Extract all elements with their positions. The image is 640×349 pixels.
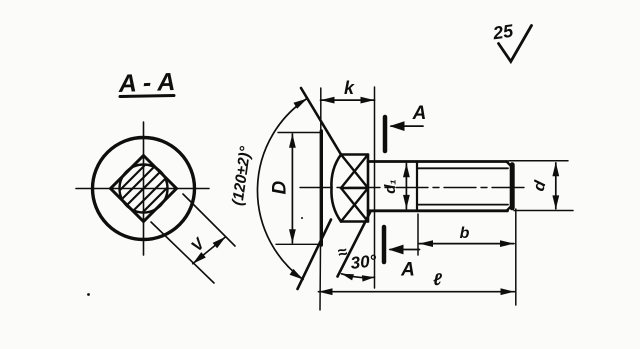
l dimension line xyxy=(319,291,515,293)
cone-to-neck intersection arcs xyxy=(331,155,341,222)
svg-text:A: A xyxy=(412,103,427,124)
vertical centerline (section view) xyxy=(143,122,145,255)
square neck X diagonals bottom xyxy=(341,188,368,222)
bolt end face xyxy=(510,165,515,208)
cutting plane mark top xyxy=(383,117,388,151)
bottom cone edge extended xyxy=(298,220,332,290)
shank circle d1 (section view) xyxy=(120,165,168,213)
thread minor diameter lines xyxy=(417,168,508,204)
b extension line (thread start) xyxy=(417,214,419,255)
svg-text:k: k xyxy=(344,78,355,98)
D dimension line xyxy=(291,134,293,243)
shank bottom line xyxy=(368,209,508,212)
D label xyxy=(270,180,291,194)
surface finish check mark xyxy=(499,26,532,62)
svg-text:25: 25 xyxy=(491,21,516,44)
D dimension extension lines xyxy=(276,133,321,245)
thread start line xyxy=(416,162,418,211)
b label xyxy=(460,225,470,242)
V extension line upper xyxy=(183,194,235,246)
scan speck xyxy=(301,217,303,219)
bolt axis centerline xyxy=(300,187,524,189)
end chamfer top xyxy=(507,162,513,168)
top cone edge extended xyxy=(301,88,341,155)
svg-text:ℓ: ℓ xyxy=(433,270,442,289)
V label xyxy=(189,235,210,255)
svg-text:A: A xyxy=(400,260,415,281)
approx 30 deg label xyxy=(336,243,377,273)
head face line (bolt view) xyxy=(320,88,322,131)
120 degree dimension arc xyxy=(257,99,307,280)
cutting plane label A top xyxy=(412,103,427,124)
b dimension line xyxy=(419,243,514,245)
square neck cross-section (diamond) xyxy=(111,156,177,222)
V extension line lower xyxy=(151,222,214,283)
svg-text:b: b xyxy=(460,225,470,242)
neck end extension line xyxy=(374,87,376,288)
d1 dimension line xyxy=(405,163,407,209)
svg-text:d₁: d₁ xyxy=(382,179,399,193)
cutting plane arrow bottom xyxy=(390,249,420,251)
svg-text:A - A: A - A xyxy=(117,68,175,98)
shank top line xyxy=(368,160,508,163)
section label A-A xyxy=(117,68,175,98)
30 deg angle arrow xyxy=(342,274,375,278)
svg-text:D: D xyxy=(270,180,291,194)
d extension lines right xyxy=(509,161,573,211)
head outer circle (section view) xyxy=(93,138,195,240)
cutting plane label A bottom xyxy=(400,260,415,281)
square neck outline xyxy=(341,155,368,222)
d1 label xyxy=(382,179,399,193)
l label xyxy=(433,270,442,289)
bolt end extension line xyxy=(515,209,517,305)
scan speck xyxy=(87,293,90,296)
svg-text:d: d xyxy=(531,178,550,193)
surface finish value 25 xyxy=(491,21,516,44)
end chamfer bottom xyxy=(507,205,513,211)
section label underline xyxy=(120,96,174,97)
svg-text:(120±2)°: (120±2)° xyxy=(229,145,254,207)
k dimension line xyxy=(321,99,375,101)
V dimension line xyxy=(193,237,226,264)
neck corner edge extended (30 deg line) xyxy=(338,213,371,277)
V dimension arrowheads xyxy=(193,237,226,264)
d label xyxy=(531,178,550,193)
cutting plane mark bottom xyxy=(382,227,387,262)
(120±2)° label xyxy=(229,145,254,207)
d dimension line xyxy=(555,163,557,209)
svg-text:≈: ≈ xyxy=(336,243,349,262)
svg-text:30°: 30° xyxy=(350,251,378,273)
k label xyxy=(344,78,355,98)
horizontal centerline (section view) xyxy=(76,188,209,190)
hatching of shank section xyxy=(111,156,182,219)
cutting plane arrow top xyxy=(391,125,423,127)
square neck X diagonals top xyxy=(341,155,368,189)
